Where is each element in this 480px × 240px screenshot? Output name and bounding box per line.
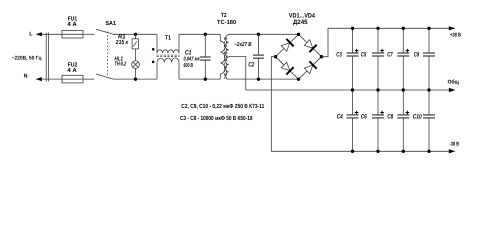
bridge AC node top [297,33,300,36]
svg-text:SA1: SA1 [105,20,116,27]
svg-text:С4: С4 [337,113,343,120]
svg-text:0,047 мк: 0,047 мк [184,57,201,63]
bridge plus node [320,55,323,58]
svg-text:ТН-0,2: ТН-0,2 [115,61,127,68]
node C2 bottom junction [257,77,260,80]
transformer T2 core (dashed) [224,38,226,79]
diode VD1 [280,39,293,52]
wire plus rail riser [322,28,449,56]
svg-text:С6: С6 [361,113,367,120]
wire T1 to T2 top [179,33,220,35]
capacitor C10 [423,90,435,151]
capacitor C1 [200,34,211,79]
C8 plus mark [406,111,410,115]
svg-text:С7: С7 [387,51,393,58]
wire HL1 to node B [135,68,137,79]
capacitor C2 [253,34,264,79]
C3 plus mark [355,49,359,53]
svg-text:Т2: Т2 [221,12,227,19]
transformer T2 primary [220,34,225,79]
C6 plus mark [380,111,384,115]
terminal L arrow [36,32,63,36]
C7 plus mark [406,49,410,53]
svg-text:С9: С9 [414,51,420,58]
capacitor C6 [372,90,384,151]
diode VD3 [280,61,293,74]
capacitor C8 [397,90,409,151]
diode VD2 [303,39,316,52]
terminal N arrow [36,77,63,81]
lamp HL1 [132,61,140,69]
svg-text:С10: С10 [413,113,422,120]
svg-text:L: L [29,32,33,38]
wire switch to node B [114,78,157,80]
svg-text:С3: С3 [336,51,342,58]
capacitor C3 [347,28,359,90]
wire minus rail riser [271,57,449,152]
svg-text:С5: С5 [361,51,367,58]
wire R1 to HL1 [135,49,137,61]
capacitor C9 [423,28,435,90]
choke T1 polarity dot 1 [152,48,155,51]
wire fuse FU1 to switch [83,33,95,35]
svg-text:С8: С8 [387,113,393,120]
wire secondary bottom to bridge [229,78,299,80]
output arrow -38V [449,149,456,153]
svg-text:Д245: Д245 [293,19,308,26]
svg-text:Общ: Общ [448,79,460,85]
svg-text:C3 - C8 - 10000 мкФ 50 В К50-1: C3 - C8 - 10000 мкФ 50 В К50-18 [180,115,253,122]
minus rail junction dots [351,150,431,153]
fuse FU2 [62,75,83,83]
connector X1 [46,33,48,82]
choke T1 winding 2 [157,58,179,79]
diode VD4 [303,61,316,74]
choke T1 core (dashed) [157,55,180,56]
svg-text:С1: С1 [185,50,192,57]
wire switch to node A [114,33,157,35]
wire common rail [246,89,449,91]
capacitor C4 [347,90,359,151]
bridge minus node [274,55,277,58]
capacitor C5 [372,28,384,90]
capacitor C7 [397,28,409,90]
output arrow common [449,88,456,92]
output arrow +38V [449,26,456,30]
node A junction (R1 top) [134,33,137,36]
wire secondary center tap [229,56,246,90]
svg-text:600 В: 600 В [184,63,194,69]
svg-text:4 А: 4 А [67,67,77,74]
svg-text:4 А: 4 А [67,21,77,28]
wire fuse FU2 to switch [83,78,95,80]
svg-text:C2, C9, C10 - 0,22 мкФ 250 В К: C2, C9, C10 - 0,22 мкФ 250 В К73-11 [181,103,265,110]
bridge frame [276,34,322,79]
common rail junction dots [351,88,431,91]
wire T1 to T2 bottom [179,78,220,80]
choke T1 polarity dot 2 [152,61,155,64]
svg-text:ТС-180: ТС-180 [217,19,237,26]
svg-text:С2: С2 [248,61,254,68]
svg-text:~2x27 В: ~2x27 В [234,42,251,48]
switch SA1 link (dashed) [107,32,109,78]
fuse FU1 [62,30,83,38]
svg-text:N: N [24,74,28,80]
svg-text:-38 В: -38 В [450,141,460,147]
node C1 bottom junction [204,77,207,80]
switch SA1 pole 1 [96,29,114,34]
node B junction (HL1 bottom) [134,77,137,80]
transformer T2 secondary [225,34,228,79]
node C1 top junction [204,33,207,36]
switch SA1 pole 2 [96,74,114,79]
svg-text:+38 В: +38 В [450,33,461,39]
wire secondary top to bridge [229,33,299,35]
resistor R1 [132,34,138,49]
svg-text:Т1: Т1 [165,35,172,42]
choke T1 winding 1 [157,34,179,53]
node C2 top junction [257,33,260,36]
svg-text:215 к: 215 к [115,39,129,46]
bridge AC node bottom [297,77,300,80]
C5 plus mark [380,49,384,53]
svg-text:~220В, 50 Гц: ~220В, 50 Гц [12,56,43,62]
plus rail junction dots [351,27,431,30]
C4 plus mark [355,111,359,115]
